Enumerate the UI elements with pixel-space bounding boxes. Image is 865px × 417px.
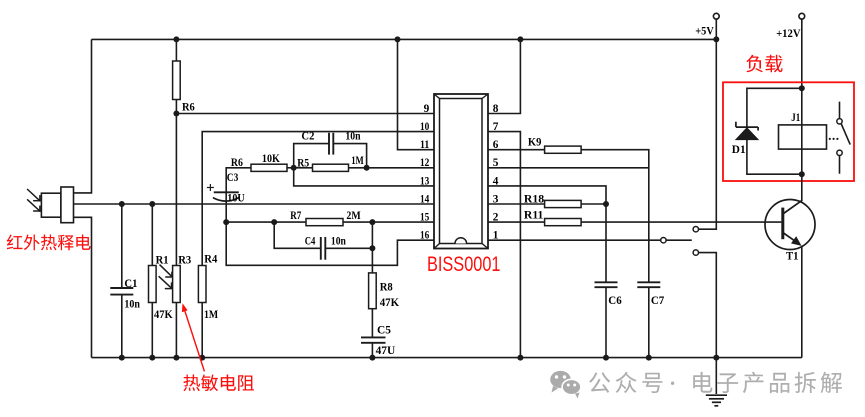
resistor R1 47K (photoresistor) <box>149 266 157 303</box>
svg-text:C3: C3 <box>227 170 239 184</box>
load box 负载 (red) <box>723 82 854 181</box>
wire C4 left branch <box>274 222 321 248</box>
wire pin 10 to R4 branch <box>202 132 434 266</box>
wire R6h right lead <box>287 167 294 169</box>
wire C2 left branch <box>294 144 329 168</box>
wire R8 to C5 <box>371 309 373 337</box>
wire left rail upper (sensor top to +5V rail) <box>74 39 92 193</box>
wire R4 lower lead <box>201 303 203 358</box>
wire R7 right lead <box>343 221 372 223</box>
wire pin 6 to K9 <box>488 149 545 151</box>
node junction R5 right / C2 right <box>364 165 370 171</box>
svg-text:10U: 10U <box>227 191 245 205</box>
wire left rail lower (sensor bottom to ground rail) <box>74 217 92 357</box>
wire ground bottom rail <box>92 357 802 359</box>
wire pin 16 jog route <box>226 222 434 265</box>
svg-text:C5: C5 <box>377 322 391 336</box>
svg-text:13: 13 <box>420 175 430 187</box>
watermark wechat logo <box>550 371 581 399</box>
wire R6 vertical branch: rail to pin 9 and down to R3 <box>175 39 177 61</box>
wire R8 net vertical (pin15 to R8) <box>371 222 373 273</box>
resistor R11 <box>545 219 582 226</box>
svg-text:10n: 10n <box>331 233 346 247</box>
node junction C7 at ground rail <box>646 355 652 361</box>
svg-text:15: 15 <box>420 212 430 224</box>
node junction pin-7 at ground rail <box>517 355 523 361</box>
photoresistor arrows pointing to R3 <box>160 265 172 277</box>
svg-text:12: 12 <box>420 157 430 169</box>
svg-text:R18: R18 <box>524 192 544 206</box>
wire relay top to diode <box>747 88 802 127</box>
node junction C5 at ground rail <box>369 355 375 361</box>
jumper contact B (pin 1) with open blade <box>661 238 666 243</box>
wire pin 4 to C6 branch <box>488 186 606 282</box>
svg-text:4: 4 <box>493 175 499 187</box>
svg-text:D1: D1 <box>732 142 746 156</box>
label 热敏电阻 (thermistor) <box>183 374 254 391</box>
wire pin 7 down to ground rail <box>488 132 520 358</box>
wire pin 8 up to +5V rail <box>488 39 520 113</box>
wire R5 leads <box>294 167 313 169</box>
svg-text:R5: R5 <box>297 155 309 169</box>
wire R11 to transistor base <box>581 221 781 223</box>
node junction R3 at ground rail <box>173 355 179 361</box>
resistor R3 (thermistor) <box>173 266 181 303</box>
wire K9 to C7 branch <box>581 150 649 282</box>
wire C2 right branch <box>333 144 366 168</box>
svg-text:C4: C4 <box>305 233 316 247</box>
wire C3 junction to R7 junction <box>226 221 274 223</box>
wire relay coil vertical <box>801 88 803 174</box>
node junction R7 left / C4 left <box>271 219 277 225</box>
svg-text:10K: 10K <box>262 151 281 165</box>
resistor R18 <box>545 200 582 207</box>
svg-text:1M: 1M <box>351 153 364 167</box>
+5V supply terminal <box>713 13 719 19</box>
wire pin 12 to R5 <box>367 167 434 169</box>
capacitor C3 10U electrolytic <box>214 191 239 193</box>
svg-text:47K: 47K <box>154 307 173 321</box>
label 红外热释电 (PIR sensor) <box>7 235 91 251</box>
svg-text:11: 11 <box>420 139 430 151</box>
node junction ground symbol at rail <box>713 355 719 361</box>
node junction pin-8 branch at +5V rail <box>517 36 523 42</box>
svg-text:10n: 10n <box>124 296 140 310</box>
resistor R6 vertical (top-left) <box>173 61 181 100</box>
svg-text:3: 3 <box>493 193 499 205</box>
node junction C6 at ground rail <box>603 355 609 361</box>
svg-text:R1: R1 <box>156 253 169 267</box>
wire emitter to ground rail <box>801 246 803 358</box>
callout arrow 热敏电阻 to R3 <box>185 310 205 371</box>
svg-text:C2: C2 <box>301 128 314 142</box>
wire C5 to ground rail <box>371 343 373 357</box>
svg-text:7: 7 <box>493 121 499 133</box>
wire jumper C to ground <box>699 253 717 358</box>
node junction R5/R6 mid <box>291 165 297 171</box>
wire C7 to ground rail <box>648 287 650 357</box>
wire C1 upper lead <box>121 204 123 288</box>
svg-text:R4: R4 <box>204 252 217 266</box>
wire pin 15 to R7 <box>372 221 434 223</box>
jumper contact C (ground side) <box>693 250 698 255</box>
node junction R6 bottom / pin 9 <box>173 111 179 117</box>
svg-text:R6: R6 <box>182 99 195 113</box>
svg-text:9: 9 <box>424 103 430 115</box>
capacitor C2 10n <box>328 133 330 155</box>
svg-text:R11: R11 <box>524 207 544 221</box>
node junction C1 tap <box>119 201 125 207</box>
node junction C1 at ground rail <box>119 355 125 361</box>
node junction relay bottom / collector <box>799 171 805 177</box>
svg-text:BISS0001: BISS0001 <box>427 252 501 276</box>
wire R7 left lead <box>274 221 306 223</box>
wire R6h left lead down through C3 <box>226 168 251 222</box>
svg-text:C6: C6 <box>608 293 621 307</box>
svg-text:2: 2 <box>493 212 499 224</box>
svg-text:J1: J1 <box>791 110 800 124</box>
wire pin 5 to K9 branch <box>488 167 649 169</box>
svg-text:10n: 10n <box>345 128 361 142</box>
wire +5V top rail <box>92 38 717 40</box>
wire collector <box>801 174 803 200</box>
node junction R4 at ground rail <box>199 355 205 361</box>
node junction C4 right / R8 net <box>369 245 375 251</box>
wire pin 9 to R6 junction <box>176 113 434 115</box>
resistor R8 47K <box>369 273 377 309</box>
node junction +5V rail end <box>713 36 719 42</box>
wire R18 to C6 branch <box>581 203 606 205</box>
capacitor C6 <box>595 281 618 283</box>
ground symbol <box>715 358 717 394</box>
capacitor C1 <box>110 287 133 289</box>
svg-text:2M: 2M <box>346 208 360 222</box>
svg-text:C1: C1 <box>124 276 137 290</box>
node junction R7 right / pin 15 / R8 <box>369 219 375 225</box>
capacitor C4 10n <box>320 237 322 260</box>
svg-text:R6: R6 <box>231 155 243 169</box>
svg-text:14: 14 <box>420 193 430 205</box>
svg-text:C7: C7 <box>651 293 664 307</box>
+12V supply terminal <box>799 13 805 19</box>
wire R1 leads <box>151 204 153 266</box>
wire pin 11 up to +5V rail <box>398 39 435 149</box>
svg-text:5: 5 <box>493 157 499 169</box>
svg-text:47U: 47U <box>376 343 396 357</box>
svg-text:47K: 47K <box>380 295 400 309</box>
diode D1 (flyback, zener-style) <box>736 126 758 128</box>
svg-text:R3: R3 <box>178 253 191 267</box>
svg-text:R8: R8 <box>380 280 393 294</box>
wire C6 to ground rail <box>605 287 607 357</box>
svg-text:1: 1 <box>493 230 499 242</box>
resistor R7 2M <box>306 219 343 226</box>
jumper contact A (+5V side) <box>693 227 698 232</box>
resistor R5 1M <box>313 164 349 171</box>
node junction pin-11 branch at +5V rail <box>395 36 401 42</box>
PIR sensor body (pyroelectric detector) <box>41 193 61 217</box>
svg-text:K9: K9 <box>528 135 542 149</box>
wire C4 right branch <box>325 247 372 249</box>
svg-text:R7: R7 <box>290 208 301 222</box>
svg-text:8: 8 <box>493 103 499 115</box>
relay J1 coil box <box>779 125 827 149</box>
resistor R6 10K (horizontal) <box>251 164 287 171</box>
node junction R18 right at C6 branch <box>603 201 609 207</box>
wire pin 3 to R18 <box>488 203 545 205</box>
svg-text:6: 6 <box>493 139 499 151</box>
svg-text:10: 10 <box>420 121 430 133</box>
capacitor C5 47U <box>361 336 386 338</box>
node junction relay top <box>799 85 805 91</box>
op-amp IC U1 BISS0001 body <box>434 94 488 249</box>
svg-text:1M: 1M <box>204 307 218 321</box>
PIR sensor arrows (incident radiation) <box>27 189 40 201</box>
wire +5V down to jumper <box>699 39 717 229</box>
transistor T1 NPN <box>765 200 815 250</box>
relay contact switch <box>839 102 841 119</box>
wire pin 2 to R11 <box>488 221 545 223</box>
svg-text:+12V: +12V <box>776 28 801 40</box>
watermark text 公众号 · 电子产品拆解 <box>589 372 662 393</box>
node junction R6 top at +5V rail <box>173 36 179 42</box>
wire C1 lower lead <box>121 295 123 358</box>
node junction R1 tap <box>149 201 155 207</box>
wire pin 1 to jumper <box>488 239 661 241</box>
resistor K9 <box>545 146 582 153</box>
wire pin 13 jog to R5 junction <box>294 168 434 186</box>
node junction R1 at ground rail <box>149 355 155 361</box>
svg-text:T1: T1 <box>786 249 799 263</box>
node junction C3 bottom <box>223 219 229 225</box>
svg-text:+5V: +5V <box>695 26 714 38</box>
wire sensor output to pin 14 <box>74 203 435 205</box>
wire diode anode to relay bottom <box>747 140 802 175</box>
resistor R4 1M <box>198 266 206 303</box>
capacitor C7 <box>637 281 660 283</box>
svg-text:16: 16 <box>420 230 430 242</box>
